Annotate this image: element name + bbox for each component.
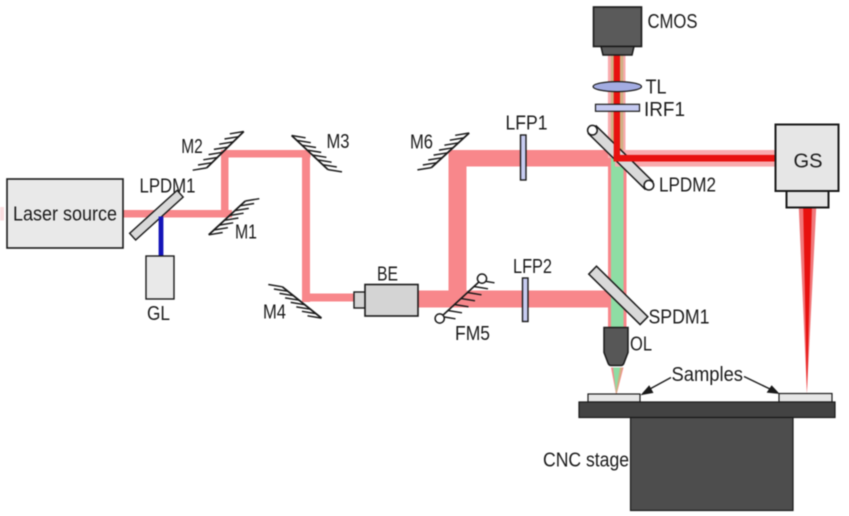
svg-text:M3: M3 (327, 131, 350, 153)
svg-text:CNC stage: CNC stage (543, 450, 629, 472)
svg-text:M2: M2 (181, 136, 203, 158)
svg-text:LPDM1: LPDM1 (140, 175, 196, 197)
svg-text:OL: OL (630, 334, 652, 356)
svg-text:GL: GL (147, 303, 170, 325)
svg-text:Samples: Samples (672, 364, 744, 386)
svg-text:LFP1: LFP1 (506, 113, 548, 135)
svg-text:Laser source: Laser source (13, 204, 117, 226)
svg-text:LPDM2: LPDM2 (659, 175, 716, 197)
svg-text:IRF1: IRF1 (644, 99, 685, 121)
svg-text:M4: M4 (263, 301, 286, 323)
svg-text:LFP2: LFP2 (513, 256, 552, 278)
svg-text:M6: M6 (410, 132, 433, 154)
svg-text:M1: M1 (235, 222, 257, 244)
svg-text:TL: TL (646, 77, 667, 99)
svg-text:BE: BE (377, 264, 398, 286)
svg-text:CMOS: CMOS (648, 11, 698, 33)
svg-text:SPDM1: SPDM1 (649, 307, 710, 329)
svg-text:FM5: FM5 (455, 323, 490, 345)
svg-text:GS: GS (794, 151, 823, 173)
